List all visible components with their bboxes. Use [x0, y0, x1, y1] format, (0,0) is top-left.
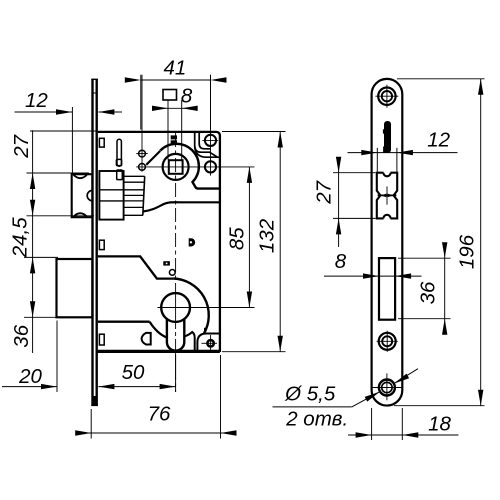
cylinder inner circle	[161, 293, 190, 322]
deadbolt	[57, 259, 93, 317]
small tab b	[117, 170, 123, 180]
body bottom edge	[97, 351, 220, 353]
41 arrows	[125, 77, 141, 82]
top 8 arrows (outside)	[152, 106, 168, 111]
dia 5.5 leader arrows	[365, 392, 380, 402]
cylinder boss arc bottom-right	[184, 332, 194, 351]
cylinder boss arc right	[173, 279, 209, 334]
132 arrows	[278, 132, 283, 148]
partition line	[98, 256, 173, 278]
leader dia 5.5	[273, 406, 352, 408]
svg-text:85: 85	[226, 227, 249, 250]
dims right view	[273, 79, 485, 440]
18 arrows outside	[356, 432, 372, 437]
follower boss arc	[160, 144, 220, 189]
tick y=140.4	[202, 139, 218, 141]
ladder right edge	[143, 176, 145, 215]
dim 12 left	[15, 111, 73, 113]
12 left arrows	[56, 109, 72, 114]
36 arrows	[30, 257, 35, 273]
dim col 27/24,5/36	[32, 130, 34, 353]
svg-text:132: 132	[256, 218, 279, 253]
tick y=153.6	[136, 153, 148, 155]
svg-text:12: 12	[25, 89, 48, 112]
svg-text:2 отв.: 2 отв.	[285, 408, 348, 431]
svg-text:76: 76	[148, 402, 171, 425]
dim 41	[140, 75, 142, 130]
svg-text:24,5: 24,5	[9, 217, 32, 258]
D mark	[189, 238, 196, 246]
svg-text:12: 12	[427, 128, 450, 151]
pinch arrowheads	[381, 194, 387, 198]
follower inner circle	[163, 154, 189, 180]
follower square hole	[169, 160, 183, 174]
deadbolt cutout	[379, 258, 395, 320]
right 27 arrows outside	[336, 157, 341, 173]
196 arrows	[478, 79, 483, 95]
svg-text:8: 8	[181, 84, 193, 107]
vertical slot	[117, 139, 121, 166]
follower cutout bowtie	[377, 173, 397, 219]
svg-text:27: 27	[10, 133, 33, 158]
black square detail	[163, 261, 170, 265]
top screw hole	[378, 88, 395, 105]
dim 196	[480, 79, 482, 406]
dim 27	[338, 165, 340, 248]
screw post lower	[205, 161, 216, 172]
right 12 arrows	[361, 150, 377, 155]
svg-text:50: 50	[122, 361, 145, 384]
20 arrow	[41, 384, 57, 389]
vertical centerline (follower to cylinder)	[175, 133, 177, 288]
horizontal centerline y=307.5	[158, 307, 255, 309]
svg-text:36: 36	[416, 281, 439, 304]
deadbolt tail bottom line	[98, 321, 150, 323]
small circle detail	[169, 270, 175, 276]
dim 18	[348, 434, 459, 436]
small circle lower (x=142)	[139, 164, 146, 171]
clip bottom-left	[99, 334, 104, 345]
black tab above boss	[171, 135, 177, 139]
latch housing block	[99, 171, 123, 220]
gusset lower arc	[195, 146, 220, 157]
clip mid-left	[99, 240, 104, 249]
dim square8 ext	[167, 100, 169, 160]
svg-text:20: 20	[18, 365, 42, 388]
horizontal centerline y=166.9	[136, 166, 254, 168]
centerline x=142	[141, 75, 143, 172]
middle screw hole	[379, 333, 396, 350]
latch bolt head	[72, 174, 93, 217]
50 arrows	[98, 384, 114, 389]
spring ladder slats	[124, 176, 145, 215]
screw post upper	[205, 135, 216, 146]
cylinder stem	[167, 318, 184, 351]
bracket screw	[207, 340, 213, 346]
85 arrows	[247, 167, 252, 183]
svg-text:196: 196	[456, 234, 479, 269]
faceplate (side view)	[91, 79, 98, 406]
cylinder boss arc bottom-left	[150, 322, 167, 338]
faceplate front view outline	[372, 79, 403, 406]
bottom screw hole	[379, 380, 395, 396]
right 8 arrows outside	[363, 273, 379, 278]
27 arrows	[30, 173, 35, 189]
dim 12	[348, 152, 458, 154]
pentagon clip	[142, 333, 151, 345]
right 36 arrows outside	[442, 242, 447, 258]
svg-text:18: 18	[428, 413, 451, 436]
svg-text:27: 27	[312, 179, 335, 204]
lever curve to right edge	[143, 202, 220, 211]
centerline x=210.5	[210, 75, 212, 176]
gusset inner	[199, 132, 210, 149]
dim 76	[86, 432, 226, 434]
lock body outline	[98, 132, 220, 351]
square symbol	[163, 90, 177, 101]
dim 36	[444, 247, 446, 332]
76 arrows	[75, 430, 91, 435]
svg-text:8: 8	[335, 250, 347, 273]
gusset outer	[195, 132, 217, 157]
keyhole slot	[384, 121, 391, 153]
dim 85	[248, 167, 250, 308]
clip top-left	[99, 138, 104, 147]
svg-text:41: 41	[163, 57, 186, 80]
boss tangent diagonal	[146, 151, 160, 165]
dim 8	[324, 275, 422, 277]
svg-text:36: 36	[10, 324, 33, 347]
bottom-right bracket	[197, 334, 220, 352]
small circle upper (x=142)	[139, 150, 146, 157]
dim 132	[279, 132, 281, 352]
small tab a	[116, 159, 121, 165]
svg-text:Ø 5,5: Ø 5,5	[284, 382, 336, 405]
dim 20/50	[2, 386, 57, 388]
